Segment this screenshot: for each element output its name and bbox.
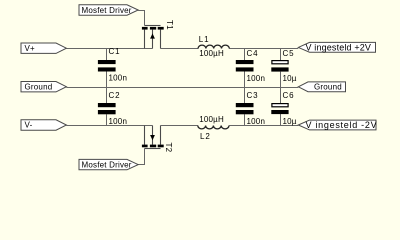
transistor T2	[142, 126, 173, 153]
svg-text:C6: C6	[283, 91, 295, 100]
svg-text:C5: C5	[283, 49, 295, 58]
flag V+	[21, 43, 66, 53]
svg-text:T2: T2	[164, 143, 173, 153]
svg-text:V ingesteld -2V: V ingesteld -2V	[306, 120, 378, 130]
wire V- rail	[66, 125, 152, 127]
inductor L2	[198, 126, 229, 129]
wire C3 leads	[244, 88, 246, 104]
flag V ingesteld +2V	[298, 42, 375, 52]
svg-text:100µH: 100µH	[199, 49, 224, 58]
svg-text:Mosfet Driver: Mosfet Driver	[82, 160, 132, 169]
wire T2 drain to L2	[161, 125, 198, 127]
svg-text:L1: L1	[199, 35, 210, 44]
svg-text:10µ: 10µ	[283, 74, 297, 83]
flag Mosfet Driver bottom	[79, 159, 138, 169]
flag Mosfet Driver top	[79, 5, 138, 15]
svg-text:100µH: 100µH	[199, 115, 224, 124]
svg-text:V-: V-	[25, 121, 33, 130]
svg-text:100n: 100n	[109, 74, 128, 83]
capacitor C6 polarized	[271, 104, 288, 115]
flag Ground right	[298, 82, 345, 92]
wire V+ rail	[66, 48, 152, 50]
capacitor C1	[98, 60, 116, 72]
inductor L1	[198, 45, 229, 48]
svg-text:V ingesteld +2V: V ingesteld +2V	[306, 42, 372, 52]
wire T1 drain to L1	[161, 48, 199, 50]
svg-text:Ground: Ground	[25, 82, 53, 91]
svg-text:Mosfet Driver: Mosfet Driver	[82, 6, 132, 15]
capacitor C5 polarized	[271, 61, 288, 72]
svg-text:10µ: 10µ	[283, 117, 297, 126]
transistor T1	[142, 20, 174, 49]
wire L2 to -2V flag	[229, 125, 298, 127]
flag Ground left	[21, 82, 66, 92]
wire L1 to +2V flag	[229, 48, 298, 50]
flag V-	[21, 120, 66, 130]
capacitor C3	[236, 103, 254, 114]
svg-text:Ground: Ground	[314, 83, 342, 92]
flag V ingesteld -2V	[298, 120, 377, 130]
capacitor C2	[98, 103, 116, 114]
svg-text:100n: 100n	[247, 74, 266, 83]
svg-text:C1: C1	[109, 47, 121, 56]
wire C5 leads	[280, 49, 282, 61]
wire C6 leads	[280, 88, 282, 104]
svg-text:C4: C4	[247, 49, 259, 58]
wire C2 leads	[106, 88, 108, 104]
svg-text:L2: L2	[200, 132, 211, 141]
svg-text:100n: 100n	[109, 117, 128, 126]
capacitor C4	[236, 60, 254, 72]
wire C1 leads	[106, 49, 108, 61]
svg-text:C2: C2	[109, 91, 121, 100]
svg-text:100n: 100n	[247, 117, 266, 126]
svg-text:C3: C3	[247, 91, 259, 100]
svg-text:V+: V+	[25, 44, 36, 53]
wire T1 gate from driver flag	[138, 11, 144, 26]
wire ground rail	[66, 87, 298, 89]
svg-text:T1: T1	[165, 20, 174, 30]
wire T2 gate from driver flag	[138, 149, 144, 165]
wire C4 leads	[244, 49, 246, 61]
